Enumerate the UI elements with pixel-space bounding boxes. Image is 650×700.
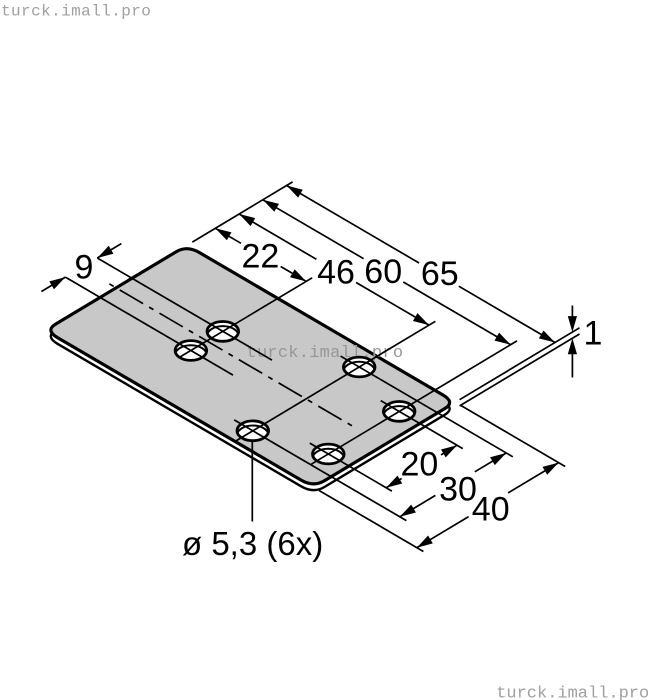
svg-text:46: 46 xyxy=(317,253,355,291)
svg-text:22: 22 xyxy=(241,238,279,276)
svg-text:ø 5,3 (6x): ø 5,3 (6x) xyxy=(182,525,323,562)
svg-text:20: 20 xyxy=(400,446,438,484)
svg-text:65: 65 xyxy=(421,255,459,293)
svg-text:turck.imall.pro: turck.imall.pro xyxy=(247,344,404,363)
svg-text:turck.imall.pro: turck.imall.pro xyxy=(1,2,151,20)
svg-text:1: 1 xyxy=(584,315,603,353)
svg-text:turck.imall.pro: turck.imall.pro xyxy=(496,685,649,700)
svg-text:40: 40 xyxy=(472,491,510,529)
svg-text:9: 9 xyxy=(75,248,94,286)
svg-text:60: 60 xyxy=(364,253,402,291)
